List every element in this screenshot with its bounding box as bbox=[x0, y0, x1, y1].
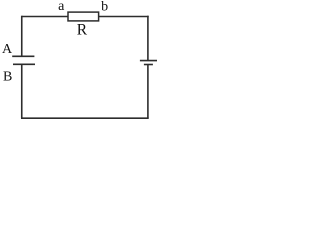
svg-text:A: A bbox=[2, 42, 13, 57]
svg-text:a: a bbox=[58, 0, 65, 14]
svg-text:R: R bbox=[77, 21, 88, 38]
svg-text:b: b bbox=[101, 0, 108, 15]
svg-text:B: B bbox=[3, 69, 12, 84]
